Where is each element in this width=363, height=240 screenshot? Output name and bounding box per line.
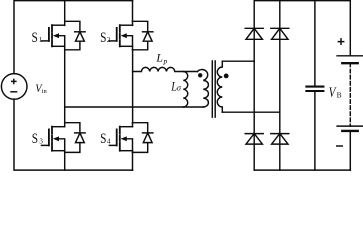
svg-text:in: in	[42, 88, 48, 95]
svg-text:S: S	[100, 131, 106, 147]
svg-text:B: B	[337, 90, 342, 99]
svg-text:2: 2	[107, 36, 111, 44]
svg-text:L: L	[155, 51, 163, 65]
svg-text:S: S	[32, 131, 38, 147]
svg-text:1: 1	[39, 36, 43, 44]
svg-text:σ: σ	[177, 84, 182, 93]
svg-text:4: 4	[107, 138, 111, 146]
svg-text:p: p	[163, 57, 168, 66]
svg-text:S: S	[100, 30, 106, 46]
svg-text:S: S	[32, 30, 38, 46]
svg-text:3: 3	[39, 138, 43, 146]
